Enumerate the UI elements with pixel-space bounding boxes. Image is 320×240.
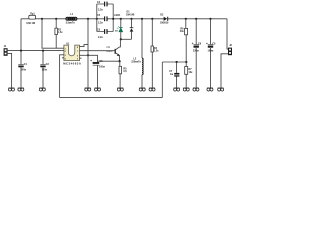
node dot x43 on J1 wire bbox=[42, 50, 44, 52]
pin stubs left bbox=[62, 48, 64, 58]
svg-text:220м: 220м bbox=[193, 49, 199, 52]
svg-text:7: 7 bbox=[77, 51, 78, 53]
svg-text:1N4148: 1N4148 bbox=[126, 13, 135, 16]
capacitor C3 electrolytic bbox=[90, 60, 105, 88]
wire x88 vertical down to dot bbox=[87, 19, 89, 56]
ground (R5) bbox=[117, 88, 123, 91]
svg-text:2,2н: 2,2н bbox=[98, 36, 103, 39]
wire dot right to C3 corner bbox=[88, 55, 98, 62]
capacitor C6 bbox=[97, 29, 113, 39]
svg-text:100м: 100м bbox=[208, 49, 214, 52]
node dot rail x42 bbox=[41, 18, 43, 20]
wire fb node horizontal bbox=[162, 61, 186, 63]
ground (L2) bbox=[139, 88, 145, 91]
ground (C2) bbox=[39, 88, 45, 91]
diode D1 bbox=[126, 11, 135, 40]
svg-text:200н: 200н bbox=[21, 68, 27, 71]
svg-text:5: 5 bbox=[77, 59, 78, 61]
svg-text:6: 6 bbox=[77, 55, 78, 57]
inductor L1 bbox=[66, 13, 77, 24]
node dot rail x210.5 (C9 branch) bbox=[209, 18, 211, 20]
inductor L2 bbox=[131, 19, 143, 88]
connector J2 bbox=[228, 44, 233, 55]
capacitor C5 bbox=[97, 14, 108, 24]
svg-text:MC34063A: MC34063A bbox=[63, 62, 81, 66]
wire emitter node to C3 top bbox=[98, 60, 120, 62]
ground (R7) bbox=[183, 88, 189, 91]
svg-text:1,5к: 1,5к bbox=[58, 31, 63, 34]
wire cap-stack left bus bbox=[96, 4, 98, 32]
wire rail right end corner to J2 bbox=[227, 19, 228, 49]
node dot rail x88 bbox=[87, 18, 89, 20]
capacitor C9 electrolytic bbox=[206, 19, 216, 88]
resistor R5 bbox=[119, 61, 127, 88]
node dot emitter bbox=[119, 60, 121, 62]
node dot rail x131.5 (D1 branch) bbox=[130, 18, 132, 20]
wire top-left corner down from fuse to J1 wire bbox=[20, 19, 22, 51]
node dot rail x185.8 (R6 branch) bbox=[185, 18, 187, 20]
capacitor C2 bbox=[40, 51, 49, 88]
svg-text:LED1: LED1 bbox=[114, 14, 121, 17]
svg-text:1м: 1м bbox=[170, 73, 173, 76]
capacitor C8 electrolytic bbox=[192, 19, 202, 88]
node dot rail x120.8 (LED branch) bbox=[120, 18, 122, 20]
node dot rail x96.8 bbox=[96, 18, 98, 20]
ground (C8) bbox=[193, 88, 199, 91]
wire IC pin3 stub and drop to feedback bus bbox=[60, 55, 62, 98]
wire J2 bottom pin to ground bbox=[221, 54, 228, 88]
wire right riser x162.3 bbox=[161, 62, 163, 98]
wire pin7 stub to dot bbox=[82, 54, 89, 56]
svg-text:2: 2 bbox=[65, 51, 66, 53]
wire bottom feedback bus bbox=[60, 97, 163, 99]
svg-text:100м: 100м bbox=[99, 66, 105, 69]
svg-text:2,2к: 2,2к bbox=[154, 50, 159, 53]
diode D2 bbox=[160, 14, 169, 25]
wire LED/D1 bottoms join bbox=[121, 38, 132, 40]
connector J1 bbox=[4, 45, 8, 56]
wire cap-stack right bus bbox=[112, 4, 114, 32]
wire x88 down to ground bbox=[87, 55, 89, 88]
node dot rail x196.2 (C8 branch) bbox=[195, 18, 197, 20]
fuse FU1 bbox=[26, 13, 36, 25]
wire rail x42 down to IC pin1 bbox=[42, 19, 62, 48]
transistor VT1 bbox=[106, 39, 120, 61]
capacitor C4 bbox=[97, 1, 113, 12]
ground (J1) bbox=[8, 88, 14, 91]
ground (J2) bbox=[218, 88, 224, 91]
svg-text:8: 8 bbox=[77, 47, 78, 49]
node A dot bbox=[120, 38, 122, 40]
IC U1 MC34063A bbox=[62, 42, 82, 65]
node dot fb/R7 bbox=[185, 61, 187, 63]
ground (C3) bbox=[95, 88, 101, 91]
svg-text:Пр1: Пр1 bbox=[30, 13, 35, 16]
ground (R4) bbox=[149, 88, 155, 91]
LED1 bbox=[114, 14, 122, 40]
node dot rail x152.3 (R4 branch) bbox=[151, 18, 153, 20]
node dot rail x113.2 bbox=[112, 18, 114, 20]
node dot x21 on J1 wire bbox=[20, 50, 22, 52]
svg-text:220мкГн: 220мкГн bbox=[131, 61, 141, 64]
node dot rail x56.2 bbox=[55, 18, 57, 20]
ground (C9) bbox=[207, 88, 213, 91]
svg-text:2,2н: 2,2н bbox=[98, 9, 103, 12]
capacitor C1 bbox=[18, 51, 27, 88]
ground (C7) bbox=[174, 88, 180, 91]
resistor R7 bbox=[185, 67, 193, 89]
svg-text:2,2н: 2,2н bbox=[98, 21, 103, 24]
svg-text:зл: зл bbox=[115, 29, 118, 32]
wire J1 top pin to IC pin2 bbox=[8, 50, 62, 52]
pin stubs right bbox=[80, 47, 82, 59]
wire J1 bottom pin to ground bbox=[8, 53, 12, 88]
wire top rail bbox=[21, 18, 227, 20]
wire jog to IC pin5 bbox=[82, 45, 89, 47]
svg-text:4: 4 bbox=[65, 57, 66, 60]
svg-text:0,68 1W: 0,68 1W bbox=[26, 22, 36, 25]
wire base from IC pin6 bbox=[82, 50, 116, 52]
ground (C1) bbox=[18, 88, 24, 91]
svg-text:3: 3 bbox=[65, 55, 66, 57]
node dot x88 y55.3 bbox=[87, 54, 89, 56]
svg-text:1N5819: 1N5819 bbox=[160, 22, 169, 25]
resistor R6 bbox=[180, 19, 188, 68]
svg-text:130н: 130н bbox=[42, 68, 48, 71]
resistor R4 bbox=[151, 19, 159, 88]
resistor R2 bbox=[55, 19, 63, 48]
svg-text:3,5мкГн: 3,5мкГн bbox=[66, 21, 76, 24]
node dot rail x142 (L2 branch) bbox=[141, 18, 143, 20]
ground (x88) bbox=[85, 88, 91, 91]
svg-text:КТ817: КТ817 bbox=[107, 51, 114, 53]
capacitor C7 bbox=[169, 61, 179, 88]
